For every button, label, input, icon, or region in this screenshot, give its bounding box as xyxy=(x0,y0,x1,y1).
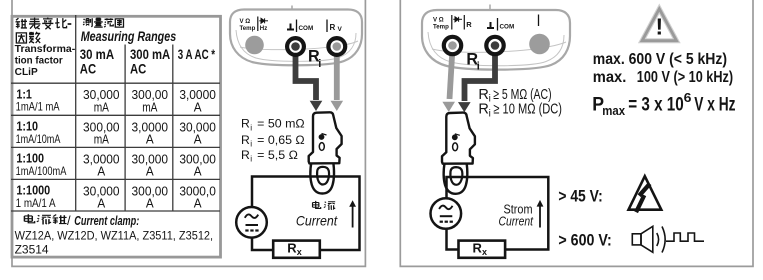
svg-text:Hz: Hz xyxy=(260,25,267,32)
svg-text:tion factor: tion factor xyxy=(15,56,63,67)
svg-text:= 0,65 Ω: = 0,65 Ω xyxy=(257,133,305,147)
svg-text:max: max xyxy=(602,103,625,118)
svg-text:R: R xyxy=(466,20,472,29)
svg-text:A: A xyxy=(194,164,202,179)
svg-text:Current: Current xyxy=(499,213,534,228)
svg-text:≥ 10 MΩ (DC): ≥ 10 MΩ (DC) xyxy=(490,102,562,118)
svg-text:300 mA: 300 mA xyxy=(130,47,170,62)
svg-text:A: A xyxy=(97,164,105,179)
svg-text:A: A xyxy=(194,196,202,211)
svg-text:i: i xyxy=(318,58,321,70)
svg-text:i: i xyxy=(250,138,252,148)
svg-text:= 50 mΩ: = 50 mΩ xyxy=(257,117,305,131)
svg-text:V Ω: V Ω xyxy=(240,18,251,25)
svg-text:1mA/10mA: 1mA/10mA xyxy=(16,132,61,146)
svg-text:x: x xyxy=(482,247,487,257)
svg-text:A: A xyxy=(146,131,154,146)
svg-text:R: R xyxy=(478,87,488,103)
svg-text:A: A xyxy=(194,131,202,146)
svg-text:mA: mA xyxy=(94,99,109,114)
svg-text:i: i xyxy=(250,122,252,132)
svg-text:= 5,5 Ω: = 5,5 Ω xyxy=(257,148,298,162)
svg-text:3 A AC *: 3 A AC * xyxy=(178,47,216,62)
svg-text:Temp: Temp xyxy=(433,23,449,30)
svg-text:mA: mA xyxy=(94,131,109,146)
svg-text:COM: COM xyxy=(500,24,515,31)
svg-text:R: R xyxy=(241,133,250,147)
svg-text:A: A xyxy=(146,164,154,179)
svg-text:R: R xyxy=(473,241,483,256)
svg-text:WZ12A, WZ12D, WZ11A, Z3511, Z3: WZ12A, WZ12D, WZ11A, Z3511, Z3512, xyxy=(15,229,214,243)
svg-text:100 V (> 10 kHz): 100 V (> 10 kHz) xyxy=(637,69,733,86)
svg-text:R: R xyxy=(287,241,297,256)
svg-text:COM: COM xyxy=(299,25,314,32)
svg-text:R: R xyxy=(241,148,250,162)
svg-text:6: 6 xyxy=(684,90,692,105)
svg-text:V: V xyxy=(338,26,343,33)
svg-text:i: i xyxy=(477,61,480,73)
svg-text:mA: mA xyxy=(142,99,157,114)
svg-text:> 600 V:: > 600 V: xyxy=(558,232,611,250)
svg-text:x: x xyxy=(297,247,302,257)
svg-text:R: R xyxy=(478,102,488,118)
svg-text:AC: AC xyxy=(130,62,147,77)
svg-text:A: A xyxy=(146,196,154,211)
svg-text:AC: AC xyxy=(80,62,97,77)
svg-text:!: ! xyxy=(655,13,663,39)
svg-text:Current: Current xyxy=(296,213,338,229)
svg-text:1mA/1 mA: 1mA/1 mA xyxy=(16,100,60,114)
svg-text:max.: max. xyxy=(593,69,627,86)
svg-text:Current clamp:: Current clamp: xyxy=(74,213,139,228)
svg-text:Z3514: Z3514 xyxy=(15,242,49,256)
svg-text:1 mA/1 A: 1 mA/1 A xyxy=(16,196,56,210)
svg-text:= 3 x 10: = 3 x 10 xyxy=(628,94,683,115)
svg-text:Measuring Ranges: Measuring Ranges xyxy=(81,29,177,44)
svg-text:CLiP: CLiP xyxy=(15,67,38,78)
svg-text:Transforma-: Transforma- xyxy=(15,44,75,55)
svg-text:≥ 5 MΩ (AC): ≥ 5 MΩ (AC) xyxy=(490,87,551,103)
svg-text:30 mA: 30 mA xyxy=(80,47,115,62)
svg-text:/: / xyxy=(67,213,71,228)
svg-text:A: A xyxy=(194,99,202,114)
svg-text:> 45 V:: > 45 V: xyxy=(558,187,602,205)
svg-text:A: A xyxy=(97,196,105,211)
svg-text:max. 600 V (< 5 kHz): max. 600 V (< 5 kHz) xyxy=(593,51,727,68)
svg-text:R: R xyxy=(241,117,250,131)
svg-text:V x Hz: V x Hz xyxy=(694,94,735,115)
svg-text:V Ω: V Ω xyxy=(433,16,444,23)
svg-text:R: R xyxy=(330,23,336,32)
svg-text:1mA/100mA: 1mA/100mA xyxy=(16,164,67,178)
svg-text:i: i xyxy=(250,154,252,164)
svg-text:Temp: Temp xyxy=(240,25,256,32)
